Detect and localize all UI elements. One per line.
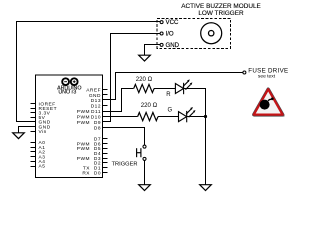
wire buzzer VCC to arduino power pin — [17, 22, 161, 122]
ground LEDs — [200, 185, 212, 191]
svg-text:RX: RX — [82, 170, 90, 176]
svg-text:UNO r3: UNO r3 — [58, 90, 76, 96]
svg-text:PWM: PWM — [77, 120, 90, 126]
svg-text:PWM: PWM — [77, 109, 90, 115]
buzzer speaker symbol — [201, 23, 222, 44]
svg-text:220 Ω: 220 Ω — [141, 102, 158, 109]
LED R — [175, 81, 190, 94]
wire buzzer GND — [145, 45, 161, 56]
wire arduino D13 to FUSE DRIVE — [104, 73, 244, 100]
node junction dot — [204, 115, 207, 118]
warning triangle icon — [254, 89, 284, 115]
svg-text:D8: D8 — [94, 125, 101, 131]
left pin labels — [39, 102, 58, 170]
svg-text:D9: D9 — [94, 120, 101, 126]
wire trigger to ground — [144, 160, 146, 185]
svg-text:GND: GND — [89, 93, 101, 99]
svg-text:A5: A5 — [39, 164, 46, 170]
switch S1 pin bottom — [143, 157, 146, 160]
arduino title — [57, 85, 81, 95]
switch S1 actuator — [137, 148, 141, 157]
right pin labels bottom group — [77, 136, 101, 176]
buzzer pin VCC — [160, 21, 163, 24]
node FUSE DRIVE terminal — [243, 71, 246, 74]
buzzer module dashed box — [157, 18, 230, 48]
svg-text:VCC: VCC — [166, 19, 179, 26]
wire arduino D11 to resistor R1 — [104, 89, 134, 112]
wire LED R to junction — [184, 89, 206, 185]
ground left — [13, 133, 25, 139]
svg-text:GND: GND — [166, 42, 180, 49]
switch S1 pin top — [143, 145, 146, 148]
buzzer pin IO — [160, 32, 163, 35]
buzzer pin labels — [166, 19, 180, 49]
svg-text:PWM: PWM — [77, 146, 90, 152]
wire LED G to junction — [187, 116, 206, 118]
svg-text:D12: D12 — [91, 104, 101, 110]
svg-text:TRIGGER: TRIGGER — [112, 162, 138, 168]
arduino logo — [62, 78, 77, 85]
svg-text:Vin: Vin — [39, 129, 47, 135]
right pin stubs top group — [103, 90, 108, 128]
ground buzzer — [139, 55, 151, 61]
resistor R1 220 — [134, 84, 154, 92]
LED G — [179, 109, 194, 122]
ground trigger — [139, 185, 151, 191]
svg-text:D13: D13 — [91, 98, 101, 104]
svg-text:PWM: PWM — [77, 115, 90, 121]
arduino U1 box — [35, 75, 102, 177]
svg-text:R: R — [166, 92, 171, 98]
svg-text:see text: see text — [258, 74, 276, 80]
wire R2 to LED G — [158, 116, 179, 118]
right pin labels top group — [77, 87, 101, 131]
svg-text:D11: D11 — [91, 109, 101, 115]
wire arduino D8 to trigger switch — [104, 128, 145, 146]
svg-text:PWM: PWM — [77, 156, 90, 162]
svg-text:FUSE DRIVE: FUSE DRIVE — [248, 67, 288, 74]
buzzer title — [181, 3, 261, 17]
wire arduino D10 to resistor R2 — [104, 116, 138, 118]
wire buzzer IO to arduino D9 — [104, 34, 161, 122]
svg-text:G: G — [167, 108, 172, 114]
right pin stubs bottom group — [103, 139, 108, 173]
svg-text:D0: D0 — [94, 170, 101, 176]
wire R1 to LED R — [154, 88, 175, 90]
svg-text:D10: D10 — [91, 115, 101, 121]
wire arduino GND to ground — [19, 127, 31, 133]
left pin stubs — [31, 104, 36, 167]
buzzer pin GND — [160, 43, 163, 46]
svg-text:LOW TRIGGER: LOW TRIGGER — [198, 10, 244, 17]
svg-text:I/O: I/O — [166, 31, 174, 38]
resistor R2 220 — [138, 113, 158, 121]
svg-text:220 Ω: 220 Ω — [136, 76, 153, 83]
svg-text:AREF: AREF — [86, 87, 101, 93]
